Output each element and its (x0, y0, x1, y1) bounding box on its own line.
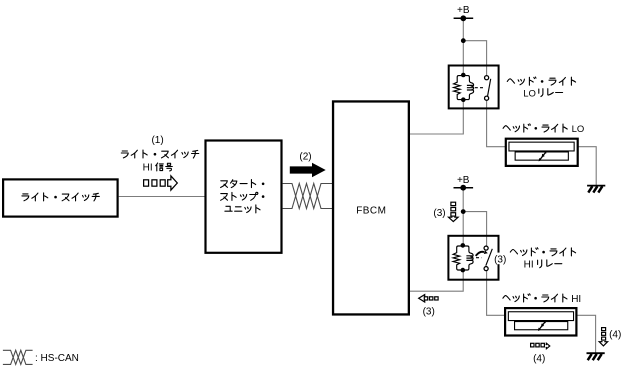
svg-text:HI: HI (571, 294, 581, 305)
svg-text:(3): (3) (433, 208, 445, 219)
svg-text:(1): (1) (151, 135, 163, 146)
svg-text:(4): (4) (609, 329, 621, 340)
svg-text:FBCM: FBCM (356, 205, 386, 216)
svg-text:(4): (4) (533, 353, 545, 364)
svg-text:(3): (3) (494, 254, 506, 265)
svg-text:(2): (2) (299, 151, 311, 162)
svg-text:LO: LO (572, 124, 585, 135)
svg-text:HI: HI (524, 260, 534, 271)
svg-text:: HS-CAN: : HS-CAN (35, 353, 79, 364)
svg-text:+B: +B (457, 175, 470, 186)
svg-text:LO: LO (523, 88, 536, 99)
svg-text:+B: +B (457, 5, 470, 16)
svg-text:(3): (3) (423, 307, 435, 318)
svg-text:HI: HI (143, 163, 153, 174)
